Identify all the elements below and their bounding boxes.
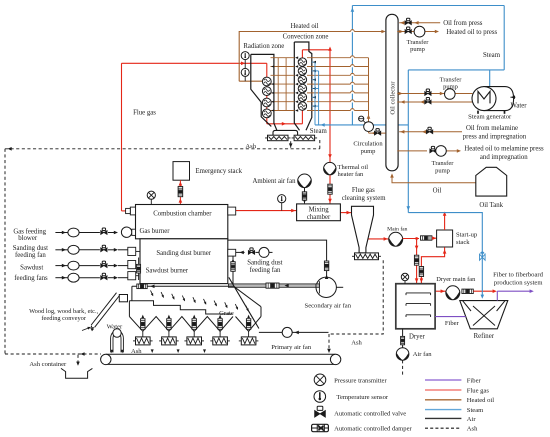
label radiation zone (243, 43, 284, 50)
right sanding dust feeding fan train (236, 247, 273, 257)
wire: ash header under boiler (dashed) (5, 147, 320, 151)
gas burner scroll (121, 227, 135, 237)
svg-text:Fiber: Fiber (445, 320, 460, 327)
damper on emergency stack line (178, 187, 183, 197)
transfer pump 3 (432, 146, 455, 175)
valve on melamine supply (430, 146, 436, 152)
gas feeding blower train (55, 228, 118, 237)
svg-text:Automatic controlled valve: Automatic controlled valve (334, 411, 406, 418)
svg-text:cleaning system: cleaning system (342, 195, 386, 202)
combustion chamber (136, 205, 228, 239)
wire: line hops over steam riser (351, 30, 355, 112)
label grate (219, 310, 234, 317)
pressure transmitter on dryer (401, 273, 408, 283)
svg-text:Steam: Steam (310, 128, 328, 135)
cyclone (352, 206, 374, 253)
svg-text:Air fan: Air fan (413, 351, 433, 358)
valve on circulation line (374, 129, 380, 135)
burner inlet 2 (128, 261, 136, 269)
wire: cyclone ash line (dashed) (329, 260, 383, 334)
sawdust feeding fan train 2 (55, 273, 127, 282)
svg-text:Wood log, wood bark, etc.,: Wood log, wood bark, etc., (29, 308, 98, 315)
svg-text:Ash: Ash (245, 143, 256, 150)
label air fan (413, 351, 433, 358)
svg-text:Fiber: Fiber (467, 377, 482, 384)
label oil from press (443, 20, 483, 27)
svg-text:Oil from melamine: Oil from melamine (466, 125, 518, 132)
wire: oil from press line (399, 21, 440, 25)
wire: steam to refiner (408, 213, 484, 299)
svg-text:Sawdust burner: Sawdust burner (146, 267, 189, 274)
svg-text:Flue gas: Flue gas (467, 387, 490, 394)
legend automatic controlled valve (315, 406, 407, 417)
svg-text:production system: production system (494, 279, 543, 286)
legend pressure transmitter (314, 374, 387, 386)
label ash top (245, 143, 256, 150)
wire: circulation pump suction (369, 132, 386, 135)
wire: wood conveyor pointer (82, 327, 91, 331)
temperature sensor 2 on heated oil line (241, 68, 249, 81)
label wood conveyor (29, 308, 98, 322)
label water (107, 323, 123, 330)
label sanding dust feeding fan (13, 245, 48, 259)
label secondary air fan (305, 302, 352, 309)
label ash right (351, 339, 362, 346)
conveyor chute (119, 295, 127, 302)
svg-text:Steam: Steam (467, 407, 484, 414)
wire: combustion chamber exhaust to mixing chamber (236, 209, 297, 213)
ash conveyor (101, 354, 341, 364)
label oil collector (389, 81, 396, 115)
svg-text:Heated oil: Heated oil (290, 23, 318, 30)
svg-text:Main fan: Main fan (387, 225, 408, 232)
wire: heated oil main line to collector (239, 30, 385, 81)
svg-text:Ash: Ash (467, 426, 478, 433)
label sawdust burner (146, 267, 189, 274)
svg-text:Oil collector: Oil collector (389, 81, 396, 115)
svg-text:Transfer: Transfer (440, 76, 463, 83)
valve on steam generator supply (425, 89, 431, 95)
wire: ash main left downcomer (dashed) (4, 149, 6, 354)
primary air fan (282, 327, 292, 337)
wire: ambient air to mixing chamber (303, 188, 307, 204)
pressure transmitter on combustion chamber (147, 191, 155, 204)
wire: emergency stack line (179, 180, 183, 204)
svg-text:Radiation zone: Radiation zone (243, 43, 284, 50)
valve on heated oil to press (405, 27, 411, 33)
main fan (387, 225, 408, 246)
svg-text:Heated oil to press: Heated oil to press (446, 29, 497, 36)
svg-text:Heated oil to melamine press: Heated oil to melamine press (464, 146, 544, 153)
transfer pump 2 (440, 76, 463, 99)
wire: steam right downcomer (503, 6, 505, 70)
label fiber (445, 320, 460, 327)
wire: primary air line (259, 331, 329, 335)
svg-text:Convection zone: Convection zone (283, 34, 329, 41)
circulation pump (359, 116, 374, 131)
right burner nozzle (228, 249, 236, 256)
svg-text:Transfer: Transfer (432, 160, 455, 167)
valve on steam generator return (425, 98, 431, 104)
air fan (396, 348, 409, 361)
temperature sensor 1 on heated oil line (241, 52, 249, 69)
wire: mixing chamber to cyclone (341, 211, 352, 215)
label oil (433, 188, 442, 195)
svg-text:Heated oil: Heated oil (467, 397, 494, 404)
wire: oil inlet to radiation top coil (239, 80, 263, 82)
lower furnace box (140, 239, 228, 284)
label gas burner (140, 228, 171, 235)
left nozzle of combustion chamber (126, 207, 136, 215)
svg-text:Flue gas: Flue gas (352, 187, 375, 194)
wire: sanding dust burner air drop (231, 256, 235, 284)
damper on start-up stack branch (421, 236, 432, 240)
svg-text:Sanding dust burner: Sanding dust burner (156, 250, 211, 257)
svg-text:blower: blower (18, 235, 38, 242)
hopper ash boxes (133, 337, 258, 345)
radiation ash box (265, 135, 291, 141)
label steam at boiler (310, 128, 328, 135)
refiner (460, 301, 508, 329)
svg-text:Emergency stack: Emergency stack (196, 168, 243, 175)
wood feeding conveyor (90, 293, 120, 332)
wire: steam generator connection (489, 70, 491, 88)
wire: flue gas to fiber line (473, 289, 496, 293)
burner inlet 3 (128, 272, 136, 280)
svg-text:Ambient air fan: Ambient air fan (252, 178, 296, 185)
label steam top right (483, 52, 501, 59)
water seal (110, 329, 123, 354)
steam valve on refiner line (480, 252, 486, 261)
svg-text:Steam generator: Steam generator (468, 114, 512, 121)
hopper outlet dampers (141, 315, 251, 337)
label convection zone (283, 34, 329, 41)
label fiber to fiberboard (493, 272, 544, 287)
svg-text:Pressure transmitter: Pressure transmitter (334, 377, 387, 384)
damper on dryer feed 1 (414, 255, 418, 265)
thermal oil heater fan (324, 162, 336, 174)
svg-text:Oil: Oil (433, 188, 442, 195)
wire: fiber product line (497, 289, 534, 300)
wire: main fan to start-up stack junction (403, 237, 419, 240)
wire: convection coil oil headers (307, 58, 370, 122)
oil tank (476, 167, 507, 196)
wire: into start-up stack (432, 236, 436, 240)
damper on secondary air duct (266, 283, 289, 288)
dryer (396, 284, 435, 329)
label ash container (29, 361, 67, 368)
svg-text:Air: Air (467, 416, 477, 423)
label right sanding dust feeding fan (247, 260, 282, 275)
svg-text:Start-up: Start-up (456, 231, 478, 238)
label emergency stack (196, 168, 243, 175)
legend temperature sensor (314, 391, 389, 403)
damper on sawdust duct (137, 264, 141, 273)
radiation zone vessel (251, 54, 277, 130)
label refiner (474, 333, 495, 340)
label oil from melamine (463, 125, 527, 140)
wire: oil from melamine press line (399, 130, 462, 134)
legend automatic controlled damper (312, 424, 413, 432)
wire: steam mid downcomer (407, 70, 411, 213)
label sawdust feeding fans (14, 265, 48, 282)
svg-text:Refiner: Refiner (474, 333, 495, 340)
right nozzle of combustion chamber (228, 207, 236, 215)
wire: flue gas junction down to dryer (415, 239, 419, 284)
furnace right diagonal (229, 277, 261, 328)
temperature sensor on exhaust line (278, 195, 286, 211)
svg-text:Flue gas: Flue gas (133, 109, 156, 116)
wire: steam riser to top loop (351, 6, 355, 125)
svg-text:Dryer main fan: Dryer main fan (436, 276, 476, 283)
svg-text:and impregnation: and impregnation (480, 154, 528, 161)
svg-text:Circulation: Circulation (353, 141, 383, 148)
label heated oil to melamine (464, 146, 544, 161)
svg-text:Temperature sensor: Temperature sensor (336, 394, 389, 401)
emergency stack (173, 162, 190, 181)
wire: flue gas bottom crossover to convection zone (267, 122, 303, 126)
label dryer (409, 333, 426, 340)
svg-text:Transfer: Transfer (407, 39, 430, 46)
wire: steam main from boiler (315, 123, 408, 127)
damper on dryer main fan outlet (462, 289, 473, 293)
wire: dryer air fan line (402, 329, 404, 348)
transfer pump 1 (407, 26, 430, 53)
label ash left (131, 348, 142, 355)
svg-text:pump: pump (443, 84, 458, 91)
damper on secondary air riser (324, 261, 328, 271)
burner inlet 1 (128, 247, 136, 255)
damper on air fan line (401, 336, 405, 344)
wire: flue gas riser from combustion chamber to radiation zone (122, 62, 267, 211)
convection zone vessel (294, 42, 312, 130)
svg-text:Sawdust: Sawdust (20, 265, 43, 272)
wire: steam stubs from economizer rows (312, 61, 319, 125)
svg-text:Oil from press: Oil from press (443, 20, 483, 27)
wire: radiation-to-convection oil ladder (271, 56, 299, 111)
label steam generator (468, 114, 512, 121)
svg-text:Grate: Grate (219, 310, 234, 317)
damper on dryer feed 2 (419, 267, 423, 277)
legend steam line (425, 407, 484, 414)
label primary air fan (271, 344, 312, 351)
wire: ash drop to conveyor right (dashed) (327, 334, 331, 353)
svg-text:feeding fans: feeding fans (14, 275, 48, 282)
svg-text:chamber: chamber (307, 214, 331, 221)
sanding dust feeding fan train (55, 245, 127, 254)
cyclone ash damper (352, 253, 381, 260)
mixing chamber (297, 204, 341, 221)
svg-text:stack: stack (456, 239, 470, 246)
wire: steam cross header (408, 69, 504, 71)
wire: ash branch to ash container (dashed) (76, 355, 80, 366)
wire: air fan intake (dashed) (402, 360, 404, 374)
label heated oil (290, 23, 318, 30)
svg-text:Primary air fan: Primary air fan (271, 344, 312, 351)
svg-text:press and impregnation: press and impregnation (463, 133, 527, 140)
label gas feeding blower (13, 229, 46, 242)
valve on melamine return (426, 127, 432, 133)
svg-text:Secondary air fan: Secondary air fan (305, 302, 352, 309)
secondary air duct (228, 284, 316, 287)
svg-text:Mixing: Mixing (309, 207, 330, 214)
fuel spreading jets (151, 290, 249, 311)
damper on heater-fan line (328, 184, 332, 194)
svg-text:pump: pump (435, 167, 450, 174)
svg-text:Sanding dust: Sanding dust (247, 260, 282, 267)
damper on ambient air line (302, 192, 306, 200)
label ambient air fan (252, 178, 296, 185)
damper on air drop (231, 262, 235, 272)
svg-text:feeding fan: feeding fan (250, 267, 281, 274)
label oil tank (479, 202, 503, 209)
wire: secondary air riser (228, 240, 329, 279)
label thermal oil heater fan (338, 164, 369, 178)
secondary air fan (316, 277, 343, 297)
start-up stack (437, 212, 453, 248)
wire: ash line to conveyor (dashed) (5, 352, 101, 356)
label flue gas (133, 109, 156, 116)
steam generator (472, 87, 515, 114)
ash fall arrows (151, 349, 206, 353)
wire: flue gas from convection top to heater fan and mixing chamber (302, 47, 331, 204)
label heated oil to press (446, 29, 497, 36)
label sanding dust burner (156, 250, 211, 257)
wire: flue gas down radiation coil stack (266, 63, 268, 124)
svg-text:Water: Water (107, 323, 123, 330)
label start-up stack (456, 231, 478, 246)
legend fiber line (425, 377, 482, 384)
dryer main fan (436, 276, 476, 300)
label circulation pump (353, 141, 383, 155)
sawdust feeding fan train 1 (55, 261, 127, 270)
svg-text:Automatic controlled damper: Automatic controlled damper (334, 426, 412, 433)
wire: heated oil to melamine line (397, 149, 461, 153)
svg-text:Ash: Ash (351, 339, 362, 346)
svg-text:pump: pump (410, 46, 425, 53)
svg-text:heater fan: heater fan (338, 171, 365, 178)
ambient air fan (298, 174, 312, 188)
svg-text:Fiber to fiberboard: Fiber to fiberboard (493, 272, 544, 279)
wire: cyclone to main fan (367, 237, 389, 241)
primary air duct (132, 285, 234, 287)
label flue gas cleaning system (342, 187, 386, 202)
sawdust common duct (136, 251, 140, 280)
grate steps (129, 286, 232, 316)
wire: flue gas up convection coil stack (301, 50, 303, 124)
svg-text:Gas burner: Gas burner (140, 228, 171, 235)
svg-text:feeding conveyor: feeding conveyor (41, 315, 86, 322)
steam coil box (292, 135, 318, 141)
wire: fiber from refiner to dryer (435, 316, 466, 318)
svg-text:pump: pump (361, 148, 376, 155)
wire: start-up stack bottom recycle to dryer (420, 247, 447, 283)
damper on primary air duct (137, 284, 155, 289)
svg-text:Water: Water (511, 102, 528, 109)
ash container (61, 368, 92, 378)
grate ash hoppers (129, 317, 233, 332)
legend air line (425, 416, 476, 423)
wire: ash drop from radiation-zone box (dashed) (289, 141, 293, 148)
radiation zone coils (262, 77, 271, 118)
wire: ash drop from steam-coil box (dashed) (319, 140, 321, 149)
flue duct manifold under vessels (273, 130, 298, 135)
legend heated oil line (425, 397, 494, 404)
wire: heated oil to press line (397, 30, 439, 34)
svg-text:Oil Tank: Oil Tank (479, 202, 503, 209)
svg-text:Dryer: Dryer (409, 333, 426, 340)
legend flue gas line (425, 387, 489, 394)
svg-text:Combustion chamber: Combustion chamber (153, 211, 212, 218)
legend ash line (425, 426, 478, 433)
wire: oil to steam generator (397, 92, 472, 96)
wire: oil tank to collector (390, 173, 476, 182)
wire: steam top header (352, 5, 504, 7)
end ash hopper (236, 317, 262, 332)
wire: dryer exhaust to dryer main fan (435, 289, 445, 293)
oil collector vessel (386, 14, 398, 171)
label water (511, 102, 528, 109)
svg-text:feeding fan: feeding fan (15, 252, 46, 259)
convection zone coils (298, 58, 306, 110)
wire: oil return from steam generator (397, 100, 472, 104)
svg-text:Steam: Steam (483, 52, 501, 59)
valve on oil from press (405, 18, 411, 24)
svg-text:Ash container: Ash container (29, 361, 67, 368)
